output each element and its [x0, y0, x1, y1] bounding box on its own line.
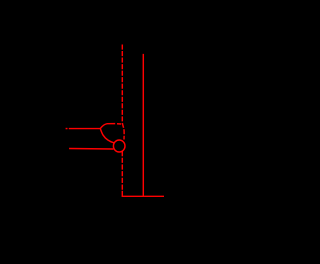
coil loop L1 (top edge after gap) — [117, 123, 121, 125]
coil turn L1 (small circle) — [113, 140, 125, 152]
wire (bottom horizontal rail) — [122, 195, 164, 197]
wire W1 (upper horizontal lead) — [69, 128, 101, 130]
wire N1 dashed vertical (top section, curving into loop right side) — [122, 45, 124, 140]
coil loop L1 (lower-left diagonal side) — [100, 129, 114, 144]
wire W1 dash stub (upper-left lead) — [66, 128, 68, 130]
wire N1 corner segment into bottom rail — [121, 191, 123, 197]
coil loop L1 (upper-left rise and top edge) — [100, 124, 115, 129]
wire N1 dashed vertical (below circle) — [121, 151, 123, 191]
wire (solid vertical line) — [142, 54, 144, 196]
wire W2 (lower horizontal lead) — [69, 148, 113, 151]
